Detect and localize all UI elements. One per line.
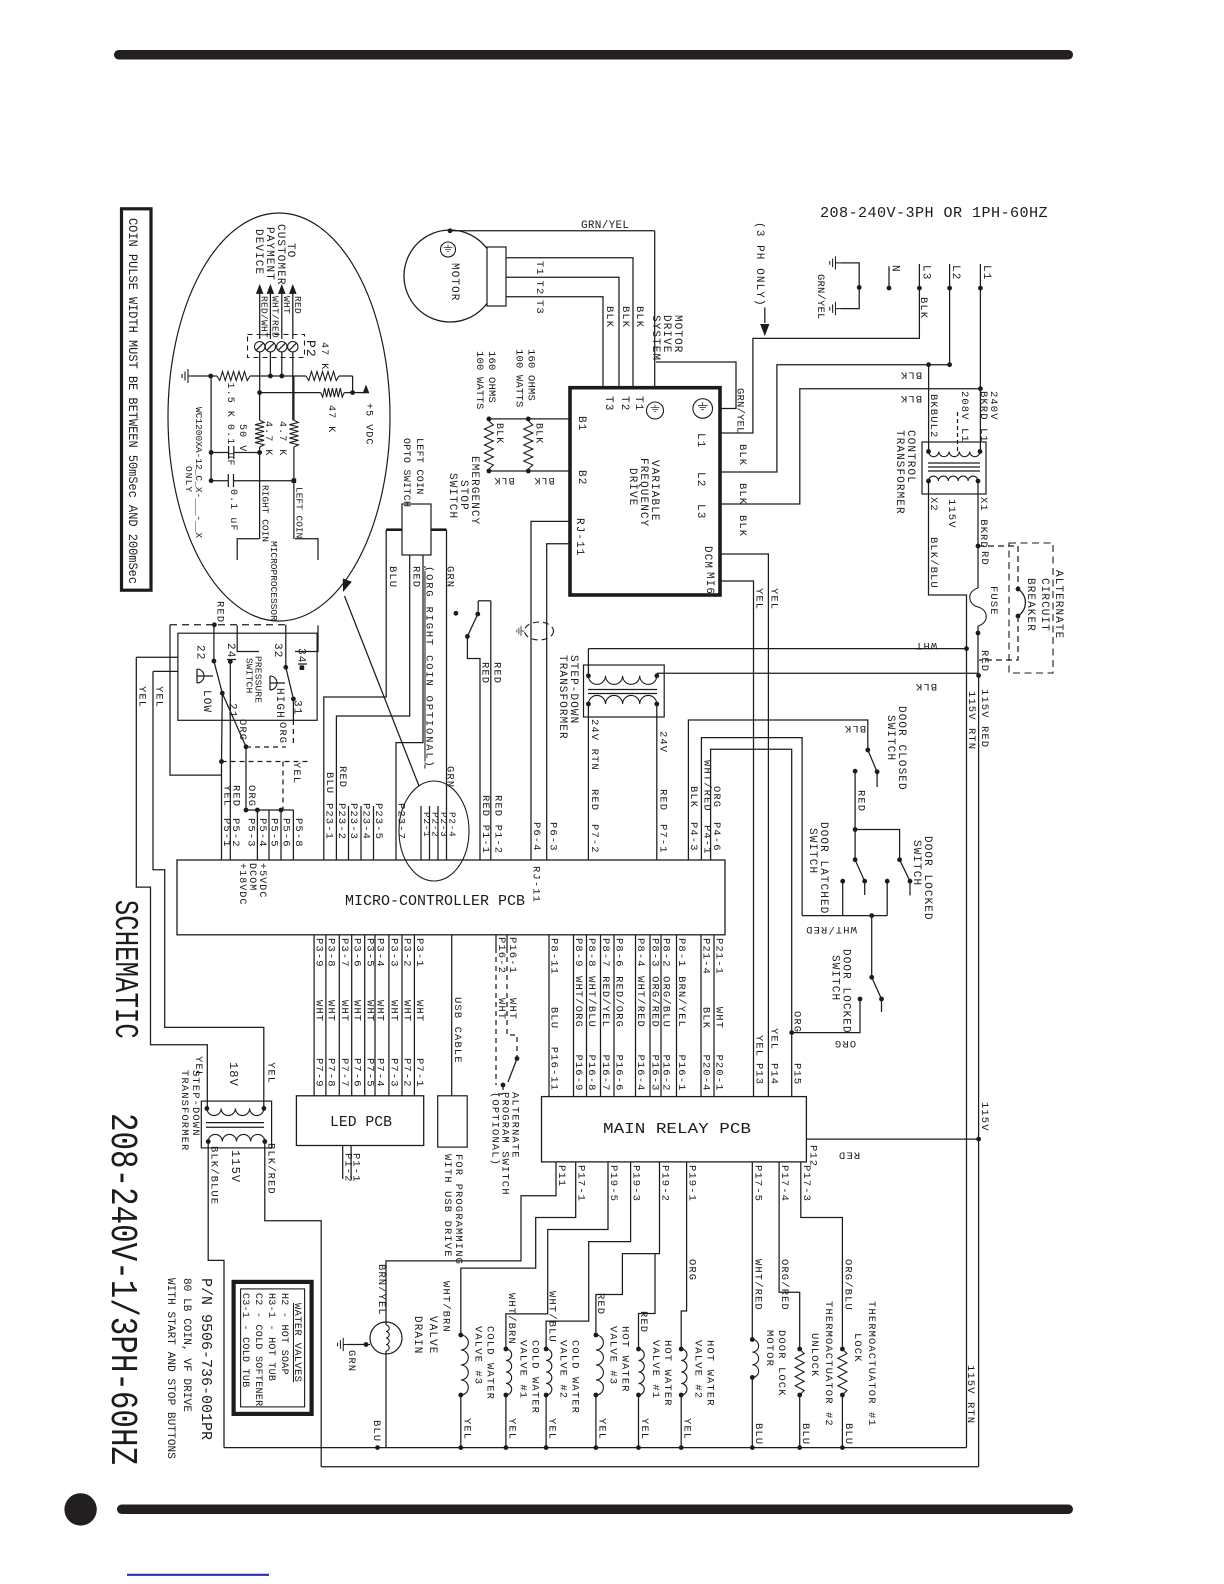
svg-text:BLK: BLK [700, 1007, 712, 1029]
wire P17-1 WHT/BRN to cold water valve 3 [461, 1162, 576, 1335]
svg-text:WHT: WHT [350, 1000, 362, 1022]
pin P1-1 stub [342, 1146, 344, 1180]
svg-text:WHT/RED: WHT/RED [805, 923, 857, 935]
svg-text:P6-3: P6-3 [547, 822, 559, 852]
svg-text:208-240V-3PH OR 1PH-60HZ: 208-240V-3PH OR 1PH-60HZ [820, 206, 1048, 222]
svg-text:RED P1-2: RED P1-2 [492, 795, 504, 854]
svg-text:YEL: YEL [753, 1035, 765, 1057]
svg-text:YEL: YEL [546, 1418, 558, 1440]
svg-text:P23-1: P23-1 [322, 803, 334, 840]
wire 31 dashed ORG [292, 699, 294, 720]
wire ORG right coin optional [396, 555, 423, 860]
wire BLK [657, 672, 979, 674]
VFD ground circle left [647, 402, 664, 419]
svg-text:BLK/BLUE: BLK/BLUE [208, 1146, 220, 1205]
svg-text:T1: T1 [533, 261, 545, 276]
svg-text:ORG: ORG [686, 1259, 698, 1281]
footer rule bar [117, 1505, 1073, 1515]
svg-text:RJ-11: RJ-11 [530, 866, 542, 903]
left coin opto switch box [402, 504, 431, 555]
wire P3-4 WHT P7-4 [374, 935, 376, 1096]
svg-text:ORG: ORG [236, 719, 248, 741]
motor M1 [404, 230, 496, 322]
svg-text:T3: T3 [533, 300, 545, 315]
svg-text:P3-8: P3-8 [325, 938, 337, 968]
svg-text:P17-1: P17-1 [575, 1165, 587, 1202]
svg-text:P2-4: P2-4 [446, 812, 457, 838]
svg-text:32: 32 [271, 643, 283, 658]
svg-text:GRN/YEL: GRN/YEL [581, 220, 629, 232]
svg-text:BLU: BLU [799, 1423, 811, 1445]
wire RIGHT COIN [259, 393, 261, 421]
wire P6-3 [547, 544, 570, 860]
svg-text:RED: RED [855, 790, 867, 812]
wire RED P12 [806, 1138, 978, 1140]
wire 24 to P5-2 [229, 662, 231, 860]
svg-text:BLU: BLU [548, 1007, 560, 1029]
svg-text:P14: P14 [768, 1063, 780, 1085]
svg-text:WHT/BLU: WHT/BLU [585, 976, 597, 1028]
svg-text:0.1 uF: 0.1 uF [227, 489, 238, 532]
svg-text:L1: L1 [694, 433, 706, 448]
wire P8-1 BRN/YEL P16-1 [676, 935, 678, 1097]
svg-text:P7-1: P7-1 [413, 1058, 425, 1088]
svg-text:VALVE #2: VALVE #2 [557, 1340, 569, 1399]
svg-text:P13: P13 [753, 1063, 765, 1085]
svg-text:L3: L3 [694, 504, 706, 519]
svg-text:BLK: BLK [900, 392, 922, 404]
svg-text:BLK: BLK [603, 306, 615, 328]
svg-text:ORG/RED: ORG/RED [778, 1259, 790, 1311]
wire P8-8 WHT/BLU P16-8 [586, 935, 588, 1097]
wire P3-6 WHT P7-6 [351, 935, 353, 1096]
svg-text:P5-5: P5-5 [268, 818, 280, 848]
load COLD WATER VALVE #1 [504, 1347, 509, 1352]
svg-text:WHT/ORG: WHT/ORG [572, 976, 584, 1028]
wire L2 BLK [720, 288, 950, 472]
P5 bus connector row [246, 809, 293, 811]
svg-text:P3-6: P3-6 [350, 938, 362, 968]
wire L3 BLK [720, 288, 919, 433]
svg-text:VALVE #3: VALVE #3 [471, 1326, 483, 1385]
svg-text:C2 - COLD SOFTENER: C2 - COLD SOFTENER [252, 1293, 263, 1406]
load HOT WATER VALVE #1 [636, 1347, 641, 1352]
contact LOW [197, 669, 204, 683]
svg-text:HIGH: HIGH [273, 688, 285, 719]
svg-text:T1: T1 [632, 396, 644, 411]
wire P2 pins down [259, 352, 261, 393]
dashed row RED [170, 624, 286, 626]
svg-text:VALVE #2: VALVE #2 [692, 1340, 704, 1399]
svg-text:TRANSFORMER: TRANSFORMER [893, 430, 905, 515]
svg-text:WHT: WHT [313, 1000, 325, 1022]
svg-text:115V RTN: 115V RTN [965, 691, 977, 750]
wire P3-9 WHT P7-9 [313, 935, 315, 1096]
pin P1-2 stub [350, 1146, 352, 1180]
svg-text:ORG: ORG [245, 785, 257, 807]
pressure switch S2 box [178, 633, 317, 720]
wire YEL P13 [720, 581, 754, 1097]
115V RED rail [978, 676, 980, 1467]
wire B1 row [489, 418, 570, 420]
svg-text:P7-7: P7-7 [338, 1058, 350, 1088]
load THERMOACTUATOR #1 LOCK [840, 1347, 845, 1352]
18V transformer core [206, 1122, 264, 1124]
svg-text:BRN/YEL: BRN/YEL [375, 1264, 387, 1316]
svg-text:P4-6: P4-6 [710, 822, 722, 852]
svg-text:P20-1: P20-1 [713, 1055, 725, 1092]
svg-text:22: 22 [194, 645, 206, 660]
svg-text:1.5 K: 1.5 K [224, 383, 235, 419]
svg-text:ORG: ORG [834, 1037, 856, 1049]
wire X1 to fuse [977, 481, 979, 588]
svg-text:P11: P11 [555, 1165, 567, 1187]
18V transformer primary [207, 1108, 264, 1115]
capacitor 0.1uF 50V [211, 452, 229, 454]
svg-text:47 K: 47 K [318, 342, 329, 370]
svg-text:SWITCH: SWITCH [244, 658, 255, 693]
svg-text:ORG: ORG [276, 722, 288, 744]
svg-text:RED P1-1: RED P1-1 [479, 795, 491, 854]
svg-text:WHT/BRN: WHT/BRN [505, 1293, 517, 1345]
pin stubs P5-4 P5-5 P5-6 P5-8 [256, 810, 258, 860]
header rule bar [114, 50, 1073, 60]
svg-text:P16-8: P16-8 [585, 1055, 597, 1092]
wire P17-4 ORG/RED to thermoactuator 2 [779, 1162, 800, 1349]
svg-text:ORG/BLU: ORG/BLU [660, 976, 672, 1028]
115V RTN rail [966, 649, 968, 1448]
svg-text:115V: 115V [978, 1102, 990, 1132]
svg-text:P23-3: P23-3 [347, 803, 359, 840]
wire P3-1 WHT P7-1 [413, 935, 415, 1096]
svg-text:100 WATTS: 100 WATTS [513, 349, 525, 408]
svg-text:GRN: GRN [444, 566, 456, 588]
svg-text:MICRO-CONTROLLER PCB: MICRO-CONTROLLER PCB [345, 894, 525, 910]
svg-text:YEL: YEL [753, 588, 765, 610]
wire P8-11 BLU P16-11 [548, 935, 550, 1097]
arrow to microprocessor [345, 596, 420, 786]
svg-text:DRIVE: DRIVE [626, 468, 638, 507]
svg-text:P12: P12 [806, 1145, 818, 1167]
svg-text:RED: RED [479, 662, 491, 684]
alternate circuit breaker CB1 dashed box [1009, 543, 1053, 673]
programming box [438, 1096, 468, 1147]
svg-text:P16-2: P16-2 [660, 1055, 672, 1092]
svg-text:P3-9: P3-9 [313, 938, 325, 968]
wire P3-7 WHT P7-7 [338, 935, 340, 1096]
blade 32-31 [286, 667, 294, 699]
svg-text:OPTO SWITCH: OPTO SWITCH [400, 438, 411, 507]
resistor 4.7 K right coin [255, 420, 264, 447]
door closed switch S3 [865, 748, 870, 753]
svg-text:RED: RED [214, 601, 226, 623]
svg-text:ORG/RED: ORG/RED [649, 976, 661, 1028]
24V transformer core [588, 689, 657, 691]
svg-text:BKBUL2: BKBUL2 [927, 394, 939, 438]
wire L1 BLK [979, 288, 981, 451]
18V transformer secondary [208, 1134, 265, 1141]
drain valve V1 [370, 1322, 402, 1354]
wire YEL left rail 2 [153, 670, 178, 672]
svg-text:TRANSFORMER: TRANSFORMER [556, 655, 568, 740]
svg-text:YEL: YEL [192, 1056, 204, 1078]
wire 21 to P5-1 [221, 693, 224, 761]
wire GRN/YEL VFD earth [656, 362, 736, 409]
svg-text:P16-2: P16-2 [495, 937, 507, 974]
wire 115V bottom bus [321, 1466, 978, 1468]
svg-text:BLK: BLK [736, 483, 748, 505]
svg-text:P23-7: P23-7 [395, 803, 407, 840]
svg-text:GRN/YEL: GRN/YEL [814, 274, 826, 320]
wire BLU opto [386, 528, 402, 531]
node GRN stub dot [454, 611, 459, 616]
svg-text:P3-3: P3-3 [388, 938, 400, 968]
svg-text:P16-7: P16-7 [599, 1055, 611, 1092]
svg-text:COLD WATER: COLD WATER [528, 1340, 540, 1414]
resistor 4.7 K left coin [289, 420, 298, 447]
wire BLK/BLUE [208, 1142, 224, 1448]
blue footer link line [127, 1574, 269, 1576]
svg-text:WITH USB DRIVE: WITH USB DRIVE [441, 1154, 453, 1258]
load HOT WATER VALVE #2 [679, 1347, 684, 1352]
capacitor 0.1uF [211, 480, 228, 482]
wire P8-6 RED/ORG P16-6 [613, 935, 615, 1097]
terminal N [888, 266, 890, 288]
svg-text:WHT: WHT [915, 639, 937, 651]
LED PCB U4 [296, 1096, 423, 1146]
svg-text:(OPTIONAL): (OPTIONAL) [489, 1092, 501, 1166]
svg-text:P/N 9506-736-001PR: P/N 9506-736-001PR [197, 1278, 214, 1440]
svg-text:BLK: BLK [687, 786, 699, 808]
svg-text:P3-4: P3-4 [374, 938, 386, 968]
svg-text:RED/ORG: RED/ORG [613, 976, 625, 1028]
svg-text:WHT/RED: WHT/RED [634, 976, 646, 1028]
wire motor T3 [506, 297, 603, 388]
svg-text:P3-7: P3-7 [338, 938, 350, 968]
svg-text:WHT/RED: WHT/RED [751, 1259, 763, 1311]
svg-text:P7-4: P7-4 [374, 1058, 386, 1088]
svg-text:RJ-11: RJ-11 [573, 518, 585, 557]
wire P3-5 WHT P7-5 [364, 935, 366, 1096]
wire P3-2 WHT P7-2 [401, 935, 403, 1096]
svg-text:+5 VDC: +5 VDC [363, 403, 374, 446]
svg-text:P16-9: P16-9 [572, 1055, 584, 1092]
svg-text:YEL: YEL [768, 1028, 780, 1050]
svg-text:HOT WATER: HOT WATER [661, 1340, 673, 1407]
svg-text:P23-4: P23-4 [360, 803, 372, 840]
svg-text:GRN: GRN [345, 1350, 357, 1372]
svg-text:UNLOCK: UNLOCK [808, 1333, 820, 1377]
svg-text:P20-4: P20-4 [700, 1055, 712, 1092]
svg-text:RED: RED [594, 1293, 606, 1315]
svg-text:160 OHMS: 160 OHMS [485, 351, 497, 403]
svg-text:L1: L1 [980, 265, 992, 280]
svg-text:BRN/YEL: BRN/YEL [675, 976, 687, 1028]
door locked switch S5 upper [855, 830, 900, 860]
svg-text:USB CABLE: USB CABLE [451, 997, 463, 1064]
svg-text:P8-6: P8-6 [613, 938, 625, 968]
wire P8-3 ORG/RED P16-3 [649, 935, 651, 1097]
svg-text:H2 - HOT SOAP: H2 - HOT SOAP [278, 1293, 289, 1375]
svg-text:BLU: BLU [842, 1423, 854, 1445]
svg-text:P7-5: P7-5 [363, 1058, 375, 1088]
svg-text:P1-1: P1-1 [350, 1153, 362, 1183]
svg-text:50 V: 50 V [236, 424, 247, 452]
svg-text:GRN/YEL: GRN/YEL [734, 388, 746, 434]
svg-text:RED: RED [838, 1149, 860, 1161]
svg-text:160 OHMS: 160 OHMS [525, 349, 537, 401]
svg-text:LOW: LOW [200, 690, 212, 713]
svg-text:LEFT COIN: LEFT COIN [294, 487, 305, 538]
wire RED door chain [853, 769, 858, 774]
svg-text:LEFT COIN: LEFT COIN [413, 438, 424, 495]
svg-text:P8-7: P8-7 [599, 938, 611, 968]
svg-text:BLK: BLK [533, 474, 554, 485]
svg-text:RED: RED [637, 1311, 649, 1333]
svg-text:B1: B1 [575, 416, 587, 431]
svg-text:P23-5: P23-5 [372, 803, 384, 840]
punch hole dot [64, 1493, 96, 1525]
load COLD WATER VALVE #3 [458, 1333, 463, 1338]
micro-controller PCB U3 [177, 860, 725, 935]
wire motor T1 [506, 258, 633, 388]
ground bus row [182, 369, 193, 383]
P2 harness arrows [259, 288, 261, 339]
svg-text:P23-2: P23-2 [335, 803, 347, 840]
svg-text:P8-8: P8-8 [585, 938, 597, 968]
wire P8-4 WHT/RED P16-4 [635, 935, 637, 1097]
wire P17-5 WHT/RED to door lock motor [751, 1162, 753, 1340]
diagonal ORG to P5-3 [222, 693, 246, 747]
svg-text:YEL: YEL [153, 686, 165, 708]
svg-text:P8-9: P8-9 [572, 938, 584, 968]
wire GRN/YEL motor ground [448, 228, 453, 233]
svg-text:SYSTEM: SYSTEM [649, 315, 661, 361]
terminal L1 [979, 264, 981, 288]
svg-text:P19-1: P19-1 [686, 1165, 698, 1202]
alternate program switch S7 dashed [507, 948, 517, 1059]
svg-text:MOTOR: MOTOR [448, 263, 460, 302]
step-down transformer T3 box [584, 665, 665, 717]
control transformer core [928, 462, 980, 464]
svg-text:WITH START AND STOP BUTTONS: WITH START AND STOP BUTTONS [164, 1278, 176, 1459]
svg-text:MAIN RELAY PCB: MAIN RELAY PCB [603, 1122, 751, 1138]
wire USB CABLE [451, 935, 453, 1096]
microprocessor U1 [237, 539, 259, 560]
wire BLK/RED [265, 1142, 321, 1467]
wire 24V RTN RED P7-2 [587, 704, 589, 860]
pin stubs P2 [420, 806, 422, 860]
svg-text:WHT: WHT [401, 1000, 413, 1022]
svg-text:COLD WATER: COLD WATER [569, 1340, 581, 1414]
svg-text:P19-2: P19-2 [659, 1165, 671, 1202]
svg-text:P16-11: P16-11 [548, 1047, 560, 1091]
svg-text:31: 31 [291, 700, 303, 715]
svg-text:P19-3: P19-3 [630, 1165, 642, 1202]
wire LEFT COIN [293, 376, 295, 420]
208V tap dashed [957, 412, 959, 452]
24V transformer secondary [588, 695, 656, 704]
svg-text:P19-5: P19-5 [607, 1165, 619, 1202]
svg-text:WHT/BRN: WHT/BRN [440, 1281, 452, 1333]
svg-text:YEL: YEL [681, 1418, 693, 1440]
svg-text:RED: RED [292, 296, 303, 314]
svg-text:208-240V-1/3PH-60HZ: 208-240V-1/3PH-60HZ [100, 1113, 143, 1465]
svg-text:ORG/BLU: ORG/BLU [841, 1259, 853, 1311]
svg-text:80 LB COIN, VF DRIVE: 80 LB COIN, VF DRIVE [180, 1278, 192, 1412]
svg-text:ALTERNATE: ALTERNATE [1052, 570, 1064, 639]
svg-text:YEL: YEL [290, 762, 302, 784]
wire motor T2 [506, 277, 619, 388]
pin P16-2 stub [495, 935, 497, 948]
resistor 47 K lower [321, 388, 345, 397]
svg-text:P5-6: P5-6 [280, 818, 292, 848]
svg-text:ONLY: ONLY [183, 466, 194, 493]
svg-text:4.7 K: 4.7 K [262, 421, 273, 457]
svg-text:RIGHT COIN: RIGHT COIN [260, 485, 271, 542]
svg-text:LED PCB: LED PCB [330, 1115, 392, 1131]
svg-text:MICROPROCESSOR: MICROPROCESSOR [268, 541, 279, 621]
svg-text:P8-11: P8-11 [548, 938, 560, 975]
3 PH ONLY arrow [764, 308, 766, 324]
svg-text:P3-5: P3-5 [363, 938, 375, 968]
svg-text:WHT: WHT [281, 296, 292, 314]
svg-text:CIRCUIT: CIRCUIT [1038, 578, 1050, 632]
svg-text:L2: L2 [694, 472, 706, 487]
svg-text:RD: RD [978, 551, 990, 566]
svg-text:P6-4: P6-4 [530, 822, 542, 852]
svg-text:T2: T2 [533, 281, 545, 296]
wire WHT/RED P4-1 [701, 738, 802, 916]
wire BLK into primary [656, 673, 658, 676]
svg-text:P21-1: P21-1 [713, 938, 725, 975]
svg-text:BLK: BLK [736, 444, 748, 466]
contact HIGH [270, 676, 277, 690]
wire 24V RED P7-1 [656, 704, 658, 860]
svg-text:BLK: BLK [493, 474, 514, 485]
wire P19-2 RED to hot water valve 3 [596, 1162, 660, 1335]
svg-text:WHT: WHT [363, 1000, 375, 1022]
svg-text:BLK: BLK [619, 306, 631, 328]
svg-text:COIN PULSE WIDTH MUST BE BETWE: COIN PULSE WIDTH MUST BE BETWEEN 50mSec … [125, 218, 139, 584]
svg-text:BLU: BLU [386, 566, 398, 588]
door locked switch S6 lower [871, 916, 873, 978]
wire P21-1 WHT P20-1 [713, 935, 715, 1097]
svg-text:T3: T3 [602, 396, 614, 411]
terminal L3 [918, 264, 920, 288]
contact 22 [213, 625, 215, 661]
wire GRN opto [431, 528, 447, 531]
load COLD WATER VALVE #2 [544, 1347, 549, 1352]
svg-text:C3-1 - COLD TUB: C3-1 - COLD TUB [239, 1293, 250, 1388]
svg-text:DCM: DCM [701, 546, 713, 569]
svg-text:WHT: WHT [495, 998, 507, 1020]
svg-text:P16-3: P16-3 [649, 1055, 661, 1092]
svg-text:SWITCH: SWITCH [806, 828, 818, 874]
svg-text:BLK/RED: BLK/RED [264, 1143, 276, 1195]
wire P3-8 WHT P7-8 [325, 935, 327, 1096]
svg-text:RED: RED [230, 785, 242, 807]
svg-text:P5-3: P5-3 [245, 818, 257, 848]
svg-text:RED: RED [588, 789, 600, 811]
wire B2 row [489, 470, 570, 472]
svg-text:H3-1 - HOT TUB: H3-1 - HOT TUB [265, 1293, 276, 1381]
wire P3-3 WHT P7-3 [388, 935, 390, 1096]
svg-text:115V: 115V [228, 1150, 242, 1183]
resistor 160 ohms R1 [484, 421, 493, 469]
svg-text:24V RTN: 24V RTN [588, 719, 600, 771]
svg-text:P5-2: P5-2 [229, 818, 241, 848]
